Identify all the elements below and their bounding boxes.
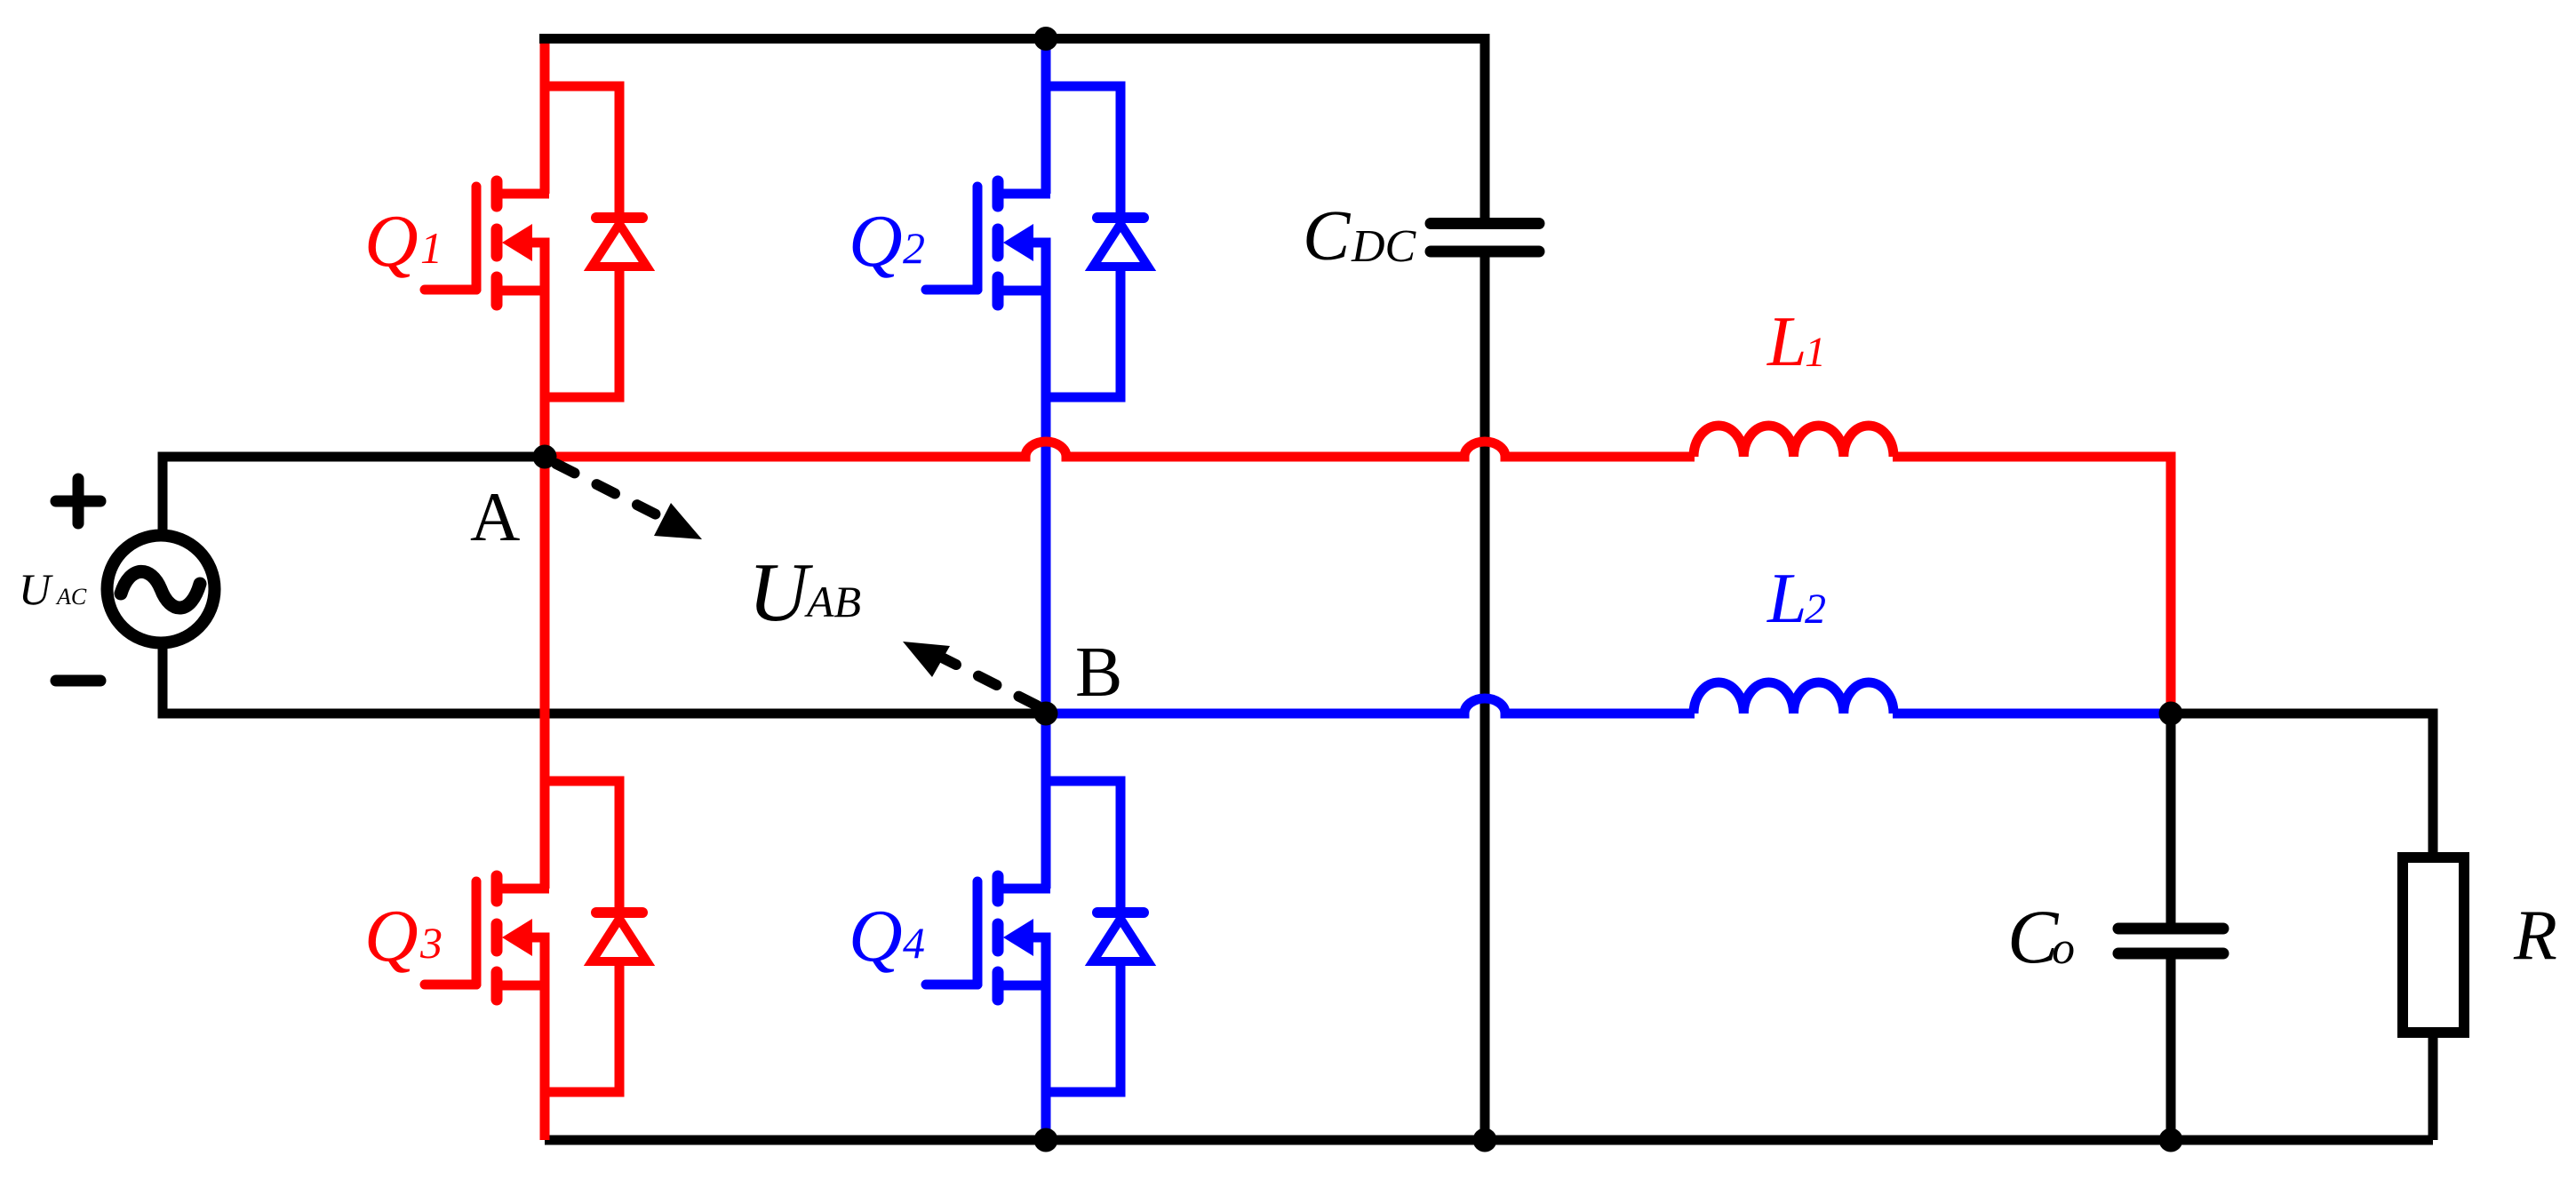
wire CDC leg upper: [1480, 34, 1490, 219]
Q3 channel dash top: [491, 876, 503, 901]
Q4 gate lead: [926, 980, 977, 990]
Q2 diode loop bottom: [1046, 267, 1121, 397]
Q3 body diode triangle: [592, 919, 647, 961]
Q3 body arrow: [502, 919, 532, 956]
capacitor Co bottom plate: [2118, 948, 2223, 960]
svg-text:L: L: [1767, 560, 1807, 638]
Q2 body arrow: [1003, 224, 1033, 261]
svg-text:Q: Q: [364, 895, 419, 977]
node A dot: [533, 445, 557, 469]
wire red leg drain segment: [540, 39, 550, 194]
Q4 gate bar: [973, 881, 983, 985]
svg-text:U: U: [19, 564, 53, 614]
inductor L2: [1694, 682, 1894, 714]
wire AC source top to node A: [163, 457, 545, 534]
Q3 gate bar: [472, 881, 482, 985]
wire blue leg middle segment (node B): [1041, 291, 1051, 889]
Q3 diode loop top: [545, 781, 619, 913]
Q4 channel dash bottom: [993, 972, 1004, 1000]
Q3 source stub: [497, 981, 549, 991]
transistor Q4: [926, 781, 1148, 1092]
Q2 body connection: [1033, 243, 1046, 295]
Q1 gate lead: [425, 285, 476, 295]
svg-text:R: R: [2513, 897, 2557, 975]
node B dot: [1034, 702, 1058, 726]
svg-text:C: C: [1303, 197, 1352, 275]
wire CDC leg lower: [1480, 257, 1490, 1140]
Q4 body diode triangle: [1093, 919, 1148, 961]
Q4 channel dash middle: [993, 924, 1004, 951]
svg-text:1: 1: [1805, 329, 1826, 376]
Q2 channel dash top: [993, 181, 1004, 206]
svg-text:DC: DC: [1351, 221, 1417, 272]
Q3 drain stub: [497, 884, 549, 894]
Q2 channel dash middle: [993, 229, 1004, 256]
dashed arrow to node B: [944, 658, 1037, 706]
Q2 drain stub: [998, 189, 1050, 199]
node dot top rail: [1034, 27, 1058, 51]
Q4 drain stub: [998, 884, 1050, 894]
Q1 body connection: [532, 243, 545, 295]
resistor R body: [2403, 857, 2464, 1032]
minus sign: [56, 675, 100, 687]
capacitor CDC top plate: [1431, 218, 1539, 229]
Q2 gate lead: [926, 285, 977, 295]
Q3 channel dash middle: [491, 924, 503, 951]
transistor Q3: [425, 781, 647, 1092]
svg-text:2: 2: [1805, 586, 1826, 633]
svg-text:A: A: [470, 478, 520, 555]
wire inductor L1 down to output junction: [1893, 457, 2171, 714]
Q1 body arrow: [502, 224, 532, 261]
Q4 diode cathode bar: [1097, 907, 1144, 918]
Q4 diode loop bottom: [1046, 961, 1121, 1092]
svg-text:2: 2: [903, 223, 925, 273]
node dot bottom rail at Co leg: [2159, 1128, 2183, 1152]
Q1 channel dash middle: [491, 229, 503, 256]
svg-text:AB: AB: [804, 577, 861, 626]
Q3 diode cathode bar: [596, 907, 642, 918]
Q1 drain stub: [497, 189, 549, 199]
svg-text:B: B: [1075, 634, 1122, 712]
Q2 body diode triangle: [1093, 224, 1148, 267]
Q4 body arrow: [1003, 919, 1033, 956]
capacitor CDC bottom plate: [1431, 246, 1539, 258]
node dot bottom rail at CDC leg: [1473, 1128, 1497, 1152]
Q4 body connection: [1033, 937, 1046, 990]
dashed arrow from node A: [556, 464, 672, 522]
svg-text:4: 4: [903, 918, 925, 968]
Q2 gate bar: [973, 187, 983, 290]
Q2 source stub: [998, 286, 1050, 296]
svg-text:o: o: [2052, 923, 2075, 974]
Q2 diode cathode bar: [1097, 212, 1144, 223]
svg-text:AC: AC: [55, 584, 87, 610]
Q1 diode loop bottom: [545, 267, 619, 397]
wire node B to inductor L2 (hop over CDC leg): [1046, 698, 1695, 714]
Q2 channel dash bottom: [993, 277, 1004, 305]
Q4 channel dash top: [993, 876, 1004, 901]
node dot bottom rail at blue leg: [1034, 1128, 1058, 1152]
plus sign: [56, 479, 100, 523]
Q1 channel dash bottom: [491, 277, 503, 305]
Q1 diode cathode bar: [596, 212, 642, 223]
wire node A to inductor L1 (hops over blue leg and CDC leg): [545, 442, 1695, 457]
wire R bottom lead: [2428, 1032, 2438, 1140]
Q4 diode loop top: [1046, 781, 1121, 913]
wire junction to R top: [2171, 714, 2433, 857]
svg-text:3: 3: [419, 918, 443, 968]
svg-text:U: U: [748, 546, 813, 639]
Q1 gate bar: [472, 187, 482, 290]
capacitor Co top plate: [2118, 923, 2223, 935]
Q4 source stub: [998, 981, 1050, 991]
Q1 source stub: [497, 286, 549, 296]
Q1 diode loop top: [545, 86, 619, 219]
wire red leg middle segment (node A): [540, 291, 550, 889]
wire blue leg drain segment: [1041, 39, 1051, 194]
Q1 channel dash top: [491, 181, 503, 206]
svg-text:L: L: [1767, 303, 1807, 381]
svg-text:Q: Q: [849, 895, 903, 977]
Q3 channel dash bottom: [491, 972, 503, 1000]
Q3 diode loop bottom: [545, 961, 619, 1092]
transistor Q2: [926, 39, 1148, 1140]
AC source circle: [108, 536, 215, 643]
wire red leg bottom segment: [540, 985, 550, 1140]
Q3 body connection: [532, 937, 545, 990]
wire blue leg bottom segment: [1041, 985, 1051, 1140]
node dot output junction: [2159, 702, 2183, 726]
wire top rail: [539, 34, 1485, 44]
transistor Q1: [425, 39, 647, 1140]
wire inductor L2 to output junction: [1893, 709, 2171, 719]
wire AC source bottom to node B: [163, 645, 1046, 714]
AC source sine symbol: [121, 571, 200, 608]
svg-text:1: 1: [420, 223, 443, 273]
inductor L1: [1694, 426, 1894, 457]
Q3 gate lead: [425, 980, 476, 990]
wire Co leg lower: [2166, 959, 2176, 1140]
Q1 body diode triangle: [592, 224, 647, 267]
svg-text:Q: Q: [364, 200, 419, 283]
wire bottom rail: [545, 1136, 2433, 1145]
svg-text:Q: Q: [849, 200, 903, 283]
Q2 diode loop top: [1046, 86, 1121, 219]
wire Co leg upper: [2166, 714, 2176, 923]
